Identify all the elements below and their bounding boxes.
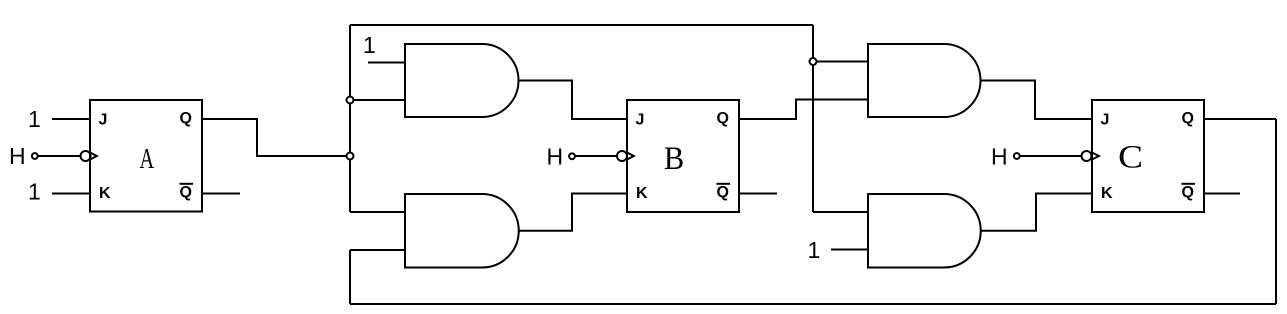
wire: B.Q to G3 lower input (739, 100, 868, 120)
overbar of Qbar label (C) (1182, 183, 1196, 185)
wire: right vertical bottom to G4 upper input (813, 211, 868, 213)
svg-text:J: J (1101, 112, 1110, 129)
svg-text:Q: Q (180, 184, 192, 201)
wire: top rail (350, 24, 813, 26)
AND gate G2 (bottom middle) (405, 194, 519, 268)
svg-text:1: 1 (808, 237, 821, 263)
svg-text:H: H (991, 144, 1008, 170)
wire: constant 1 to J of A (52, 118, 90, 120)
wire: constant 1 to K of A (52, 193, 90, 195)
clock inversion bubble (B) (617, 151, 627, 161)
wire: bus to G1 lower input (354, 99, 406, 101)
input terminal circle H (C) (1014, 153, 1020, 159)
JK flip-flop B body (627, 100, 739, 212)
clock edge wedge (A) (90, 153, 97, 160)
input terminal circle H (B) (569, 153, 575, 159)
svg-text:J: J (636, 112, 645, 129)
clock edge wedge (C) (1092, 153, 1099, 160)
svg-text:Q: Q (717, 110, 729, 127)
JK flip-flop A body (90, 100, 202, 212)
svg-text:J: J (99, 112, 108, 129)
svg-text:Q: Q (1182, 110, 1194, 127)
svg-text:1: 1 (28, 179, 41, 205)
junction node on right vertical to G3 (810, 58, 817, 65)
wire: bus bottom to G2 upper input (350, 211, 405, 213)
svg-text:K: K (1101, 185, 1113, 202)
JK flip-flop C body (1092, 100, 1204, 212)
wire: feedback right vertical (1275, 119, 1277, 304)
wire: H terminal to clock bubble of C (1020, 155, 1082, 157)
svg-text:B: B (664, 140, 684, 176)
wire: H terminal to clock bubble of A (38, 155, 81, 157)
svg-text:Q: Q (180, 110, 192, 127)
wire: constant 1 to G1 upper input (368, 62, 405, 64)
AND gate G4 (bottom right) (868, 194, 981, 268)
clock inversion bubble (A) (81, 151, 91, 161)
wire: A.Qbar stub (202, 193, 240, 195)
wire: constant 1 to G4 lower input (831, 249, 868, 251)
AND gate G3 (top right) (868, 44, 981, 117)
wire: A.Q to bus node (202, 119, 347, 156)
AND gate G1 (top middle) (405, 44, 519, 117)
wire: feedback bottom rail (350, 303, 1276, 305)
clock inversion bubble (C) (1082, 151, 1092, 161)
wire: feedback to G2 lower input (350, 249, 405, 251)
input terminal circle H (A) (32, 153, 38, 159)
wire: C.Qbar stub (1204, 193, 1240, 195)
wire: G1 output to B.J (519, 81, 628, 120)
svg-text:H: H (9, 143, 26, 169)
svg-text:Q: Q (717, 184, 729, 201)
wire: G2 output to B.K (519, 194, 627, 231)
wire: H terminal to clock bubble of B (575, 155, 617, 157)
wire: B.Qbar stub (739, 193, 777, 195)
wire: G3 output to C.J (981, 81, 1093, 120)
svg-text:1: 1 (363, 32, 376, 58)
svg-text:C: C (1118, 138, 1143, 175)
wire: vertical bus from A.Q net (349, 25, 351, 212)
svg-text:K: K (636, 185, 648, 202)
junction node on bus to G1 (347, 97, 354, 104)
svg-text:1: 1 (28, 106, 41, 132)
wire: G4 output to C.K (981, 194, 1092, 231)
svg-text:H: H (547, 144, 564, 170)
clock edge wedge (B) (627, 153, 634, 160)
overbar of Qbar label (A) (180, 183, 194, 185)
junction node on bus from A.Q (347, 153, 354, 160)
svg-text:A: A (139, 144, 154, 175)
wire: node to G3 upper input (817, 61, 869, 63)
svg-text:K: K (99, 185, 111, 202)
overbar of Qbar label (B) (717, 183, 731, 185)
wire: right vertical drop from top rail (812, 25, 814, 212)
wire: C.Q to feedback right vertical (1204, 118, 1276, 120)
svg-text:Q: Q (1182, 184, 1194, 201)
wire: feedback riser (left) (349, 250, 351, 304)
